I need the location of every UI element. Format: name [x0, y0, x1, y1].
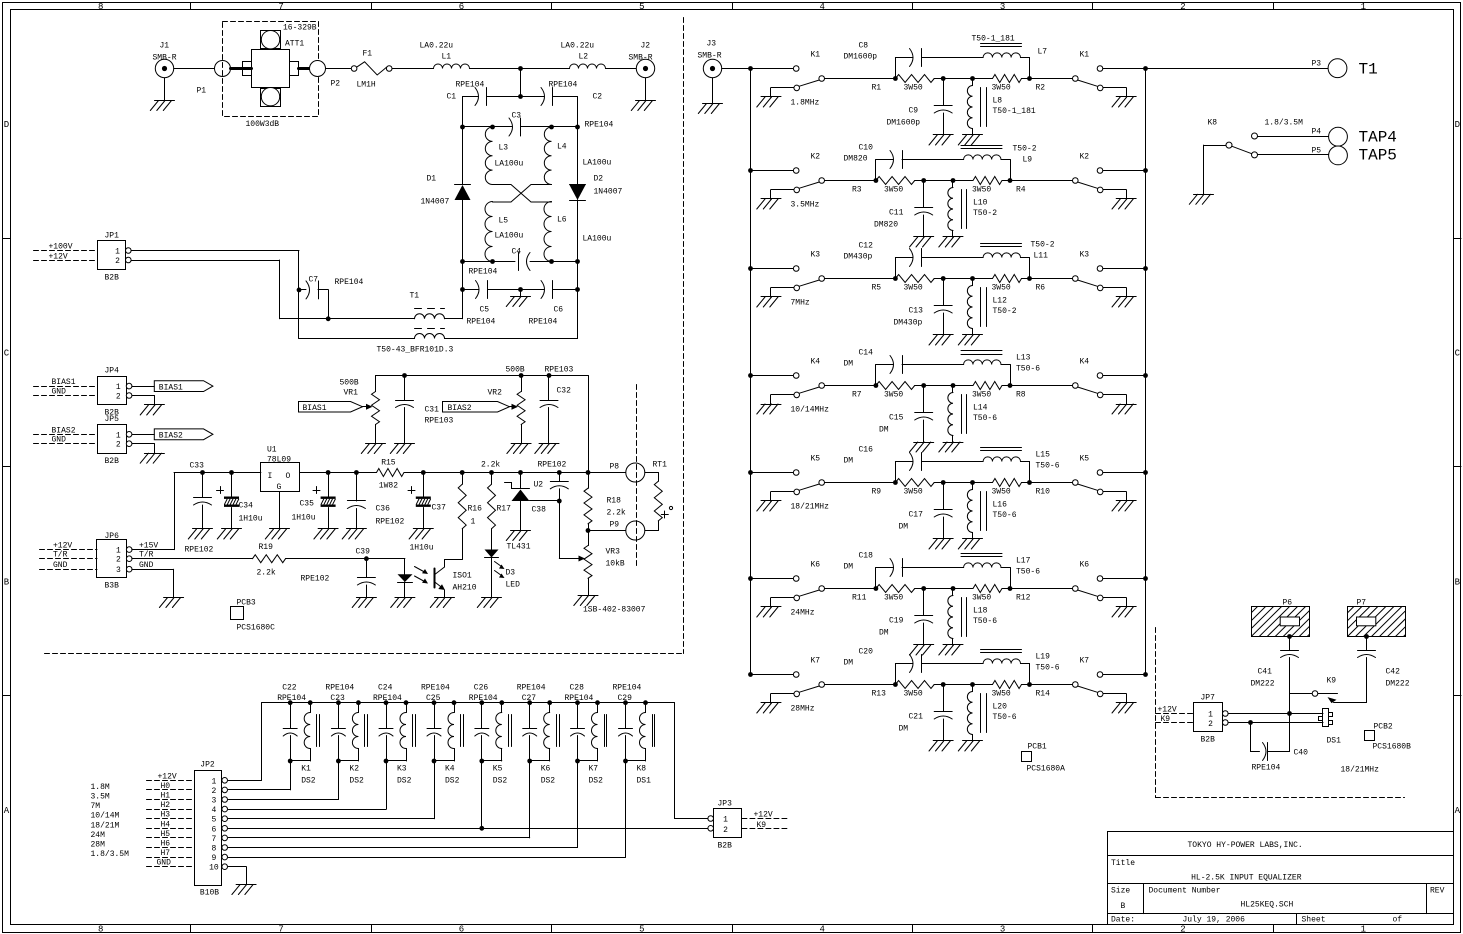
wire JP3 feed [674, 703, 676, 819]
svg-text:H1: H1 [161, 792, 171, 801]
pad P5 TAP5 [1258, 146, 1397, 165]
node [748, 672, 753, 677]
svg-text:2: 2 [116, 393, 121, 402]
relay contact DS1 [1319, 709, 1342, 746]
pad P9 [588, 521, 645, 541]
svg-text:RT1: RT1 [653, 461, 668, 470]
wire [462, 529, 464, 560]
node [326, 470, 331, 475]
relay coil K5 DS2 [479, 700, 511, 785]
node [518, 470, 523, 475]
svg-text:RPE103: RPE103 [425, 417, 454, 426]
wire [934, 278, 992, 280]
svg-text:DM: DM [844, 360, 854, 369]
svg-text:K3: K3 [397, 765, 407, 774]
svg-text:Document Number: Document Number [1149, 886, 1221, 895]
svg-text:1.8MHz: 1.8MHz [791, 99, 820, 108]
pad P3 T1 [1312, 59, 1378, 79]
svg-text:C12: C12 [859, 242, 874, 251]
svg-text:B2B: B2B [105, 274, 120, 283]
svg-text:7: 7 [278, 2, 283, 12]
svg-text:R6: R6 [1036, 284, 1046, 293]
inductor L1 LA0.22u [420, 42, 470, 69]
svg-text:7: 7 [278, 924, 283, 934]
ground [390, 444, 414, 454]
svg-text:K4: K4 [1080, 358, 1090, 367]
wire JP7 pin2 [1228, 722, 1323, 724]
svg-text:T50-2: T50-2 [973, 209, 997, 218]
svg-text:K8: K8 [1208, 119, 1218, 128]
svg-text:T50-6: T50-6 [993, 511, 1017, 520]
resistor R7 3W50 [852, 382, 915, 400]
svg-text:1W82: 1W82 [379, 482, 398, 491]
ground [631, 78, 655, 111]
wire +15V [132, 473, 175, 551]
relay K1 right [1073, 51, 1146, 98]
svg-text:P5: P5 [1312, 147, 1322, 156]
ground [132, 444, 164, 464]
svg-text:LM1H: LM1H [357, 81, 376, 90]
inductor L19 T50-6 [981, 650, 1060, 685]
node [519, 373, 524, 378]
svg-text:HL25KEQ.SCH: HL25KEQ.SCH [1241, 901, 1294, 910]
svg-text:1: 1 [1361, 924, 1366, 934]
svg-text:R11: R11 [852, 594, 867, 603]
ground [958, 135, 982, 146]
svg-text:T50-6: T50-6 [973, 617, 997, 626]
ground [757, 404, 781, 414]
svg-text:T50-6: T50-6 [993, 713, 1017, 722]
ground [929, 741, 953, 752]
svg-text:T50-1_181: T50-1_181 [993, 107, 1036, 116]
node [490, 125, 495, 130]
ground [1112, 703, 1136, 714]
ground [757, 607, 781, 618]
svg-text:C1: C1 [447, 93, 457, 102]
node [575, 287, 580, 292]
svg-text:C26: C26 [474, 684, 489, 693]
svg-text:1: 1 [116, 547, 121, 556]
svg-text:+12V: +12V [754, 811, 773, 820]
svg-text:BIAS1: BIAS1 [303, 404, 327, 413]
node [518, 94, 523, 99]
svg-text:O: O [286, 472, 291, 481]
node [489, 470, 494, 475]
net H0 [147, 782, 195, 791]
node [460, 259, 465, 264]
svg-text:1: 1 [116, 383, 121, 392]
svg-text:K7: K7 [811, 657, 821, 666]
svg-text:C36: C36 [376, 505, 391, 514]
svg-text:P3: P3 [1312, 60, 1322, 69]
node [460, 470, 465, 475]
svg-text:RPE104: RPE104 [456, 81, 485, 90]
wire [577, 761, 579, 848]
svg-text:JP6: JP6 [105, 532, 120, 541]
relay coil K6 DS2 [527, 700, 559, 785]
svg-text:C25: C25 [426, 694, 441, 703]
svg-text:L15: L15 [1036, 451, 1051, 460]
svg-text:18/21MHz: 18/21MHz [1341, 766, 1380, 775]
svg-text:K3: K3 [811, 251, 821, 260]
ground [391, 598, 415, 608]
svg-text:ATT1: ATT1 [285, 40, 304, 49]
capacitor C34 1H10u [217, 473, 263, 530]
svg-text:28M: 28M [91, 841, 106, 850]
connector JP5 B2B [98, 415, 132, 466]
ground JP2 pin10 [228, 867, 256, 895]
node [421, 470, 426, 475]
svg-text:1: 1 [115, 248, 120, 257]
relay K6 right [1073, 561, 1146, 608]
wire right rail [577, 200, 579, 339]
capacitor C9 DM1600p [887, 76, 953, 135]
svg-text:1.8/3.5M: 1.8/3.5M [1265, 119, 1304, 128]
shunt reference U2 TL431 [505, 473, 560, 552]
ground [342, 529, 366, 540]
wire cross [493, 185, 552, 203]
connector P7 [1324, 599, 1434, 637]
flag BIAS2 [132, 429, 213, 441]
capacitor C31 RPE103 [396, 376, 454, 444]
svg-text:K2: K2 [1080, 153, 1090, 162]
wire right rail [577, 97, 579, 185]
svg-text:DS2: DS2 [349, 777, 364, 786]
inductor L12 T50-2 [967, 276, 1016, 335]
resistor R13 3W50 [872, 681, 935, 699]
net H3 [147, 811, 195, 820]
relay K5 right [1073, 455, 1146, 502]
node [326, 316, 331, 321]
node [297, 288, 302, 293]
svg-text:JP3: JP3 [718, 800, 733, 809]
svg-text:DM: DM [879, 629, 889, 638]
ground [409, 529, 433, 540]
svg-text:C11: C11 [889, 209, 904, 218]
svg-text:C20: C20 [859, 648, 874, 657]
svg-text:JP2: JP2 [200, 761, 215, 770]
svg-text:LA0.22u: LA0.22u [420, 42, 454, 51]
wire [606, 68, 637, 70]
svg-text:R1: R1 [872, 84, 882, 93]
relay K5 left [751, 455, 830, 512]
wire +15V row [174, 472, 261, 474]
opto LED ISO1 [398, 559, 413, 598]
svg-text:DS2: DS2 [589, 777, 604, 786]
net +100V [34, 243, 98, 252]
svg-text:5: 5 [639, 2, 644, 12]
ground [958, 539, 982, 550]
resistor R11 3W50 [852, 585, 915, 603]
svg-text:L19: L19 [1036, 653, 1051, 662]
capacitor C25 RPE104 [421, 684, 450, 762]
svg-text:D2: D2 [594, 175, 604, 184]
wire [1022, 278, 1073, 280]
svg-text:RPE102: RPE102 [538, 461, 567, 470]
svg-text:1SB-402-83007: 1SB-402-83007 [583, 606, 646, 615]
ground [757, 703, 781, 714]
wire [392, 68, 434, 70]
svg-text:1: 1 [116, 431, 121, 440]
svg-text:L16: L16 [993, 501, 1008, 510]
svg-text:T1: T1 [1359, 61, 1378, 79]
svg-text:J1: J1 [160, 42, 170, 51]
svg-text:DM222: DM222 [1386, 680, 1410, 689]
wire wiper [559, 558, 579, 560]
svg-text:100W3dB: 100W3dB [246, 120, 280, 129]
ground [314, 529, 338, 540]
attenuator ATT1 16-329B [223, 22, 319, 130]
svg-text:RPE104: RPE104 [469, 268, 498, 277]
svg-text:T50-6: T50-6 [1036, 664, 1060, 673]
svg-text:C8: C8 [859, 42, 869, 51]
svg-text:1.8M: 1.8M [91, 783, 110, 792]
svg-text:T50-6: T50-6 [1016, 365, 1040, 374]
svg-text:GND: GND [52, 436, 67, 445]
node [547, 373, 552, 378]
svg-text:C32: C32 [557, 387, 572, 396]
net H2 [147, 801, 195, 810]
wire [625, 761, 627, 857]
node [460, 287, 465, 292]
node [893, 480, 898, 485]
wire [529, 761, 531, 838]
svg-text:P9: P9 [610, 521, 620, 530]
svg-text:L3: L3 [499, 144, 509, 153]
node [549, 259, 554, 264]
node [490, 259, 495, 264]
node [557, 499, 562, 504]
ground [910, 442, 934, 452]
capacitor C8 DM1600p [844, 42, 984, 79]
node [200, 470, 205, 475]
resistor R10 3W50 [992, 479, 1051, 497]
wire [915, 180, 973, 182]
connector JP7 B2B [1194, 694, 1229, 745]
svg-text:C41: C41 [1258, 668, 1273, 677]
svg-text:H7: H7 [161, 849, 171, 858]
ground [188, 529, 212, 540]
node [1027, 682, 1032, 687]
svg-text:RPE104: RPE104 [613, 684, 642, 693]
connector P6 [1227, 599, 1337, 637]
svg-text:3W50: 3W50 [904, 488, 923, 497]
svg-text:3W50: 3W50 [884, 391, 903, 400]
capacitor C19 DM [879, 586, 933, 645]
svg-text:C27: C27 [522, 694, 537, 703]
capacitor C4 RPE104 [463, 248, 578, 277]
connector JP4 B2B [98, 367, 132, 418]
svg-text:500B: 500B [340, 379, 359, 388]
svg-text:Title: Title [1111, 859, 1135, 868]
inductor L11 T50-2 [981, 241, 1055, 279]
svg-text:3: 3 [211, 797, 216, 806]
svg-text:T50-1_181: T50-1_181 [972, 35, 1015, 44]
net BIAS2 [34, 426, 98, 435]
resistor R5 3W50 [872, 275, 935, 293]
svg-text:3W50: 3W50 [884, 186, 903, 195]
ground [939, 645, 963, 656]
net GND [40, 561, 98, 570]
ground [757, 199, 781, 210]
svg-text:DS1: DS1 [1327, 737, 1342, 746]
capacitor C21 DM [899, 682, 953, 741]
svg-text:TL431: TL431 [507, 543, 531, 552]
connector J1 SMB-R [153, 42, 177, 78]
svg-text:3: 3 [1000, 2, 1005, 12]
node [586, 528, 591, 533]
svg-text:K7: K7 [1080, 657, 1090, 666]
capacitor C13 DM430p [894, 276, 953, 335]
inductor L3 LA100u [485, 127, 523, 185]
ground [217, 529, 241, 540]
title block [1108, 832, 1454, 925]
relay coil K7 DS2 [575, 700, 606, 785]
svg-text:8: 8 [211, 845, 216, 854]
svg-text:28MHz: 28MHz [791, 705, 815, 714]
svg-text:GND: GND [52, 388, 67, 397]
svg-text:L11: L11 [1034, 252, 1049, 261]
svg-text:1: 1 [471, 518, 476, 527]
inductor L6 LA100u [544, 202, 612, 262]
svg-text:DM820: DM820 [874, 221, 898, 230]
ground [1112, 199, 1136, 210]
svg-text:C28: C28 [570, 684, 585, 693]
net GND [34, 436, 98, 445]
wire [934, 684, 992, 686]
relay K8 1.8/3.5M [1204, 119, 1304, 195]
capacitor C10 DM820 [844, 144, 964, 181]
svg-text:RPE104: RPE104 [325, 684, 354, 693]
svg-text:BIAS2: BIAS2 [448, 404, 472, 413]
svg-text:TOKYO HY-POWER LABS,INC.: TOKYO HY-POWER LABS,INC. [1188, 841, 1303, 850]
svg-text:+12V: +12V [1158, 706, 1177, 715]
svg-text:LA100u: LA100u [583, 159, 612, 168]
svg-text:8: 8 [98, 2, 103, 12]
svg-text:DM: DM [844, 457, 854, 466]
relay coil K2 DS2 [336, 700, 368, 785]
svg-text:BIAS1: BIAS1 [159, 383, 183, 392]
svg-text:H5: H5 [161, 830, 171, 839]
inductor L2 LA0.22u [561, 42, 606, 69]
svg-text:2: 2 [116, 441, 121, 450]
wire [825, 588, 876, 590]
capacitor C1 RPE104 [447, 81, 521, 106]
inductor L10 T50-2 [948, 178, 997, 237]
pcb marker PCB3 PCS1680C [231, 599, 276, 633]
relay K2 left [751, 153, 825, 210]
svg-text:C38: C38 [532, 506, 547, 515]
capacitor C7 RPE104 [299, 276, 364, 319]
inductor L8 T50-1_181 [967, 76, 1036, 135]
svg-text:K7: K7 [589, 765, 599, 774]
svg-text:K4: K4 [811, 358, 821, 367]
svg-text:LA0.22u: LA0.22u [561, 42, 595, 51]
svg-text:K2: K2 [349, 765, 359, 774]
node [354, 470, 359, 475]
node [893, 76, 898, 81]
svg-text:3: 3 [1000, 924, 1005, 934]
svg-text:4: 4 [819, 2, 824, 12]
svg-text:H3: H3 [161, 811, 171, 820]
relay coil K1 DS2 [288, 700, 320, 785]
capacitor C12 DM430p [844, 242, 984, 279]
node [1143, 470, 1148, 475]
node [1008, 586, 1013, 591]
svg-text:LA100u: LA100u [583, 235, 612, 244]
pcb marker PCB1 PCS1680A [1022, 743, 1066, 774]
resistor R18 2.2k [584, 473, 626, 531]
svg-text:C14: C14 [859, 349, 874, 358]
inductor L18 T50-6 [948, 586, 997, 645]
svg-text:3W50: 3W50 [972, 391, 991, 400]
wire +12V rail [228, 780, 261, 782]
capacitor C5 RPE104 [463, 281, 521, 327]
svg-text:DS2: DS2 [541, 777, 556, 786]
svg-text:3.5M: 3.5M [91, 793, 110, 802]
diode D2 1N4007 [570, 175, 623, 201]
net H6 [147, 840, 195, 849]
svg-text:L2: L2 [579, 53, 589, 62]
svg-text:H2: H2 [161, 801, 171, 810]
svg-text:C29: C29 [618, 694, 633, 703]
svg-text:D: D [1455, 120, 1460, 130]
node [748, 576, 753, 581]
svg-text:DM: DM [844, 563, 854, 572]
svg-text:C9: C9 [909, 107, 919, 116]
wire row [404, 472, 626, 474]
ground [757, 297, 781, 308]
svg-text:3W50: 3W50 [972, 186, 991, 195]
wire [286, 558, 405, 560]
svg-text:C2: C2 [593, 93, 603, 102]
flag BIAS1 source [299, 402, 373, 413]
wire to P3 [1146, 68, 1329, 70]
boundary dashed [636, 385, 638, 566]
svg-text:SMB-R: SMB-R [629, 54, 653, 63]
wire left rail [462, 200, 464, 290]
connector JP6 B3B [97, 532, 133, 591]
svg-text:C35: C35 [300, 500, 315, 509]
ground [929, 539, 953, 550]
resistor R4 3W50 [972, 177, 1026, 195]
resistor R15 1W82 [377, 459, 404, 491]
ground [506, 290, 530, 307]
svg-text:C3: C3 [512, 112, 522, 121]
wire [1022, 78, 1073, 80]
node [874, 383, 879, 388]
svg-text:K4: K4 [445, 765, 455, 774]
svg-text:C16: C16 [859, 446, 874, 455]
svg-text:H6: H6 [161, 840, 171, 849]
svg-text:DM: DM [844, 659, 854, 668]
svg-text:2.2k: 2.2k [257, 569, 276, 578]
pad P2 [299, 61, 341, 89]
svg-text:TAP4: TAP4 [1359, 129, 1397, 147]
wire T/R [132, 551, 253, 560]
svg-text:GND: GND [139, 561, 154, 570]
capacitor C26 RPE104 [469, 684, 498, 762]
svg-text:HL-2.5K INPUT EQUALIZER: HL-2.5K INPUT EQUALIZER [1191, 874, 1302, 883]
svg-text:DS2: DS2 [445, 777, 460, 786]
svg-text:LED: LED [506, 581, 521, 590]
inductor L15 T50-6 [981, 448, 1060, 483]
svg-text:L18: L18 [973, 607, 988, 616]
svg-text:Size: Size [1111, 886, 1130, 895]
svg-text:D3: D3 [506, 569, 516, 578]
capacitor C37 1H10u [408, 473, 446, 553]
svg-text:LA100u: LA100u [495, 160, 524, 169]
